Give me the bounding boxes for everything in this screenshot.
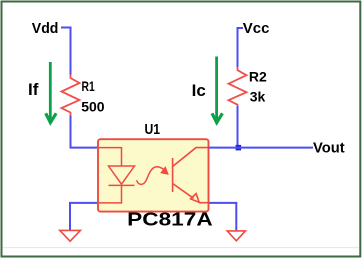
- U1 light arrow: [137, 167, 169, 185]
- svg-text:R1: R1: [82, 78, 95, 94]
- ground right: [227, 231, 245, 241]
- wire U1 emitter to ground: [209, 203, 236, 231]
- svg-text:3k: 3k: [250, 88, 266, 104]
- wire R1 to U1 anode: [71, 116, 98, 148]
- svg-text:PC817A: PC817A: [127, 209, 213, 229]
- current arrow If: [46, 62, 56, 123]
- svg-text:Vcc: Vcc: [243, 21, 270, 37]
- wire R2 to output node: [237, 106, 239, 148]
- optocoupler U1 body: [98, 139, 209, 211]
- wire Vdd to R1: [61, 28, 71, 75]
- svg-text:Vdd: Vdd: [32, 21, 59, 37]
- svg-text:500: 500: [81, 99, 105, 115]
- U1 LED anode lead: [98, 148, 122, 166]
- U1 phototransistor: [173, 148, 208, 203]
- svg-text:R2: R2: [249, 68, 267, 84]
- wire U1 cathode to ground: [70, 203, 97, 231]
- resistor R1: [62, 75, 80, 116]
- U1 LED cathode lead: [98, 185, 122, 203]
- current arrow Ic: [212, 57, 222, 123]
- node junction R2/Vout: [236, 145, 242, 151]
- wire Vcc to R2: [238, 28, 244, 67]
- U1 LED: [109, 166, 135, 185]
- svg-text:Vout: Vout: [313, 141, 345, 157]
- svg-text:If: If: [28, 80, 39, 99]
- resistor R2: [229, 67, 247, 106]
- wire output to Vout: [209, 147, 314, 149]
- svg-text:Ic: Ic: [192, 81, 206, 100]
- svg-text:U1: U1: [145, 121, 161, 138]
- ground left: [60, 230, 81, 241]
